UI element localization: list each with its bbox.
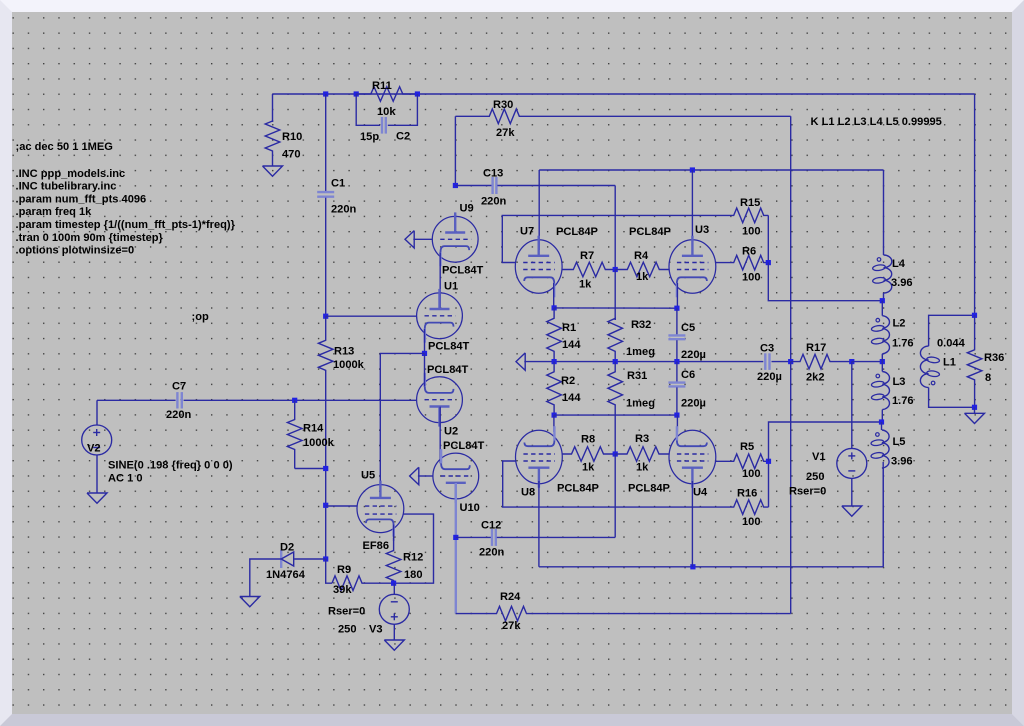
svg-text:EF86: EF86 (363, 540, 390, 552)
svg-text:C12: C12 (481, 519, 501, 531)
svg-text:R6: R6 (742, 245, 756, 257)
svg-text:R11: R11 (372, 80, 392, 92)
svg-text:100: 100 (742, 225, 761, 237)
svg-text:.param num_fft_pts 4096: .param num_fft_pts 4096 (16, 193, 147, 205)
svg-text:250: 250 (806, 471, 825, 483)
svg-text:;ac dec 50 1 1MEG: ;ac dec 50 1 1MEG (16, 141, 113, 153)
svg-text:PCL84T: PCL84T (443, 440, 485, 452)
node R36 bottom (972, 405, 977, 410)
wire top rail B+ y=94 (273, 93, 975, 95)
svg-text:L3: L3 (893, 376, 906, 388)
svg-text:C6: C6 (681, 369, 695, 381)
svg-text:PCL84T: PCL84T (428, 340, 470, 352)
svg-text:R7: R7 (580, 250, 594, 262)
node C6 bottom / U4 cathode (674, 413, 679, 418)
svg-text:AC 1 0: AC 1 0 (108, 472, 143, 484)
svg-text:R13: R13 (334, 345, 354, 357)
wire to U5 plate (380, 353, 424, 492)
svg-text:1meg: 1meg (626, 346, 655, 358)
wire U10 plate down to C12 node (455, 483, 457, 614)
svg-text:R8: R8 (581, 433, 595, 445)
svg-text:1k: 1k (636, 461, 649, 473)
svg-text:R9: R9 (337, 564, 351, 576)
svg-text:1.76: 1.76 (892, 337, 914, 349)
svg-text:Rser=0: Rser=0 (789, 485, 826, 497)
svg-text:R14: R14 (303, 422, 324, 434)
svg-text:R10: R10 (282, 131, 302, 143)
wire R16 right up (768, 461, 770, 507)
svg-text:1k: 1k (582, 461, 595, 473)
input arrow mid rail (516, 353, 525, 370)
svg-text:R1: R1 (562, 322, 576, 334)
node C5/C6 (674, 359, 679, 364)
wire L2 bottom (881, 354, 883, 362)
node C3/R17/feedback (788, 359, 793, 364)
svg-text:V3: V3 (369, 623, 383, 635)
wire U9 grid (413, 238, 432, 240)
inductor L4 (883, 253, 885, 255)
wire R15 right drop (767, 215, 769, 262)
ground V2 (96, 490, 98, 493)
svg-text:PCL84T: PCL84T (442, 264, 484, 276)
capacitor C7 (176, 392, 178, 408)
resistor R7 (562, 262, 616, 277)
node R32/R31 (613, 359, 618, 364)
inductor L1 (920, 346, 928, 387)
tube U3 PCL84P (669, 240, 716, 294)
wire U9 cathode to U1 plate (439, 252, 441, 309)
wire C2 loop (356, 94, 375, 125)
svg-text:.INC ppp_models.inc: .INC ppp_models.inc (16, 168, 126, 180)
svg-text:.tran 0 100m 90m {timestep}: .tran 0 100m 90m {timestep} (16, 232, 164, 244)
svg-text:220µ: 220µ (681, 397, 706, 409)
resistor R2 (547, 362, 562, 416)
wire U5 g2 path (394, 514, 434, 583)
svg-text:15p: 15p (360, 131, 379, 143)
node U4 plate (690, 564, 695, 569)
svg-text:U10: U10 (460, 502, 480, 514)
wire x=325.7 to R9 (326, 559, 332, 583)
capacitor C6 (676, 362, 678, 382)
svg-text:220µ: 220µ (681, 349, 706, 361)
node R7/R4/C13 (613, 267, 618, 272)
node R14 top (292, 398, 297, 403)
svg-text:SINE(0 .198 {freq} 0 0 0): SINE(0 .198 {freq} 0 0 0) (108, 459, 233, 471)
wire cathode rail upper y=308 (554, 307, 677, 309)
svg-text:U8: U8 (521, 486, 535, 498)
wire plate rail y=566.8 (539, 566, 883, 568)
wire C13 down x=615.2 to R7/R4 node (614, 186, 616, 270)
wire U4 plate stub (691, 481, 693, 567)
svg-text:.INC tubelibrary.inc: .INC tubelibrary.inc (16, 181, 117, 193)
wire R6 node down to L4 bottom rail (768, 263, 882, 301)
node U9 plate / C13 / R30 (453, 183, 458, 188)
resistor R36 (967, 315, 982, 407)
svg-text:220n: 220n (481, 195, 507, 207)
svg-text:27k: 27k (496, 127, 515, 139)
node L3 bottom (879, 419, 884, 424)
resistor R14 (287, 400, 302, 468)
svg-text:U4: U4 (693, 486, 708, 498)
svg-text:250: 250 (338, 623, 357, 635)
svg-text:R15: R15 (740, 197, 760, 209)
input arrow U10 grid (410, 467, 419, 484)
wire R10 drop x=272.5 (272, 94, 274, 122)
capacitor C13 (455, 185, 491, 187)
wire R5 node up to y=422 rail (769, 422, 882, 461)
resistor R6 (715, 255, 768, 270)
svg-text:C7: C7 (172, 380, 186, 392)
svg-text:C5: C5 (681, 322, 695, 334)
ground V1 (851, 503, 853, 506)
svg-text:R16: R16 (737, 487, 757, 499)
node C1 top junction (323, 91, 328, 96)
svg-text:U5: U5 (361, 469, 375, 481)
svg-text:1N4764: 1N4764 (266, 569, 306, 581)
node D2 on x=325.7 (323, 556, 328, 561)
svg-text:100: 100 (742, 516, 761, 528)
diode D2 1N4764 (280, 550, 282, 568)
capacitor C3 (764, 353, 766, 370)
resistor R10 (265, 121, 280, 163)
svg-text:D2: D2 (280, 541, 294, 553)
node L4 bottom (880, 298, 885, 303)
inductor L2 (882, 316, 889, 354)
wire U10 grid (418, 475, 433, 477)
tube U10 PCL84T flipped (433, 453, 479, 499)
wire U7 g2 to R15 run (502, 215, 720, 262)
svg-text:1k: 1k (636, 271, 649, 283)
svg-text:PCL84P: PCL84P (628, 482, 671, 494)
svg-text:220n: 220n (166, 409, 192, 421)
node V1 plus (849, 359, 854, 364)
wire U2 cathode up (424, 353, 426, 386)
svg-text:27k: 27k (502, 620, 521, 632)
svg-text:U7: U7 (520, 225, 534, 237)
svg-text:U9: U9 (460, 202, 474, 214)
svg-text:220n: 220n (479, 546, 505, 558)
svg-text:R24: R24 (500, 591, 521, 603)
resistor R5 (715, 454, 768, 469)
svg-text:1meg: 1meg (626, 397, 655, 409)
tube U5 EF86 (357, 485, 404, 533)
wire U1 cathode down (424, 329, 426, 354)
wire U8 plate down (538, 481, 540, 567)
capacitor C12 (456, 536, 491, 538)
svg-text:L5: L5 (893, 436, 906, 448)
svg-text:U2: U2 (444, 425, 458, 437)
svg-text:R30: R30 (493, 99, 513, 111)
svg-text:V2: V2 (87, 442, 101, 454)
wire U4 cathode up (676, 415, 678, 432)
svg-text:8: 8 (985, 372, 991, 384)
wire cathode rail lower y=415.1 (554, 414, 677, 416)
wire C1 to U1-grid junction (325, 225, 327, 316)
node C5 top (674, 306, 679, 311)
voltage source V2 (96, 400, 98, 425)
tube U8 PCL84P flipped (516, 430, 563, 484)
node R11 left (354, 91, 359, 96)
wire R30 left drop (454, 116, 456, 185)
node cathodes U1-U2 to U5 plate (422, 351, 427, 356)
svg-text:R12: R12 (403, 551, 423, 563)
wire L3 top (881, 362, 883, 372)
resistor R17 (791, 354, 852, 369)
svg-text:1k: 1k (579, 278, 592, 290)
resistor R32 (608, 318, 623, 361)
voltage source V3 (393, 583, 395, 594)
node R9/R12/V3/U5g2 (391, 581, 396, 586)
svg-text:C2: C2 (396, 130, 410, 142)
svg-text:PCL84T: PCL84T (427, 364, 469, 376)
svg-text:R32: R32 (631, 319, 651, 331)
wire U7 plate stub (538, 170, 540, 250)
svg-text:100: 100 (742, 468, 761, 480)
wire R30 to x=790.7 (530, 115, 791, 117)
node R2 bottom / U8 cathode (552, 413, 557, 418)
wire L3 bottom (881, 410, 883, 422)
svg-text:L4: L4 (892, 258, 906, 270)
svg-text:470: 470 (282, 148, 301, 160)
wire R17 to L2/L3 node (852, 361, 883, 363)
svg-text:V1: V1 (812, 451, 826, 463)
wire U3 plate stub (691, 170, 693, 250)
inductor L3 (882, 372, 889, 410)
node U10 plate / C12 (453, 535, 458, 540)
wire D2 left to ground (250, 559, 281, 594)
wire x=325.7 down through crossings (325, 400, 327, 559)
svg-text:.param timestep {1/((num_fft_p: .param timestep {1/((num_fft_pts-1)*freq… (16, 219, 236, 231)
svg-text:39k: 39k (333, 584, 352, 596)
svg-text:C13: C13 (483, 167, 503, 179)
svg-text:R36: R36 (984, 352, 1004, 364)
inductor L5 (882, 430, 889, 468)
svg-text:144: 144 (562, 392, 581, 404)
wire U3 cathode down (676, 283, 678, 308)
wire L5 top (881, 422, 883, 430)
svg-text:;op: ;op (192, 311, 209, 323)
node R5/R16 (766, 459, 771, 464)
svg-text:0.044: 0.044 (937, 337, 966, 349)
svg-text:1.76: 1.76 (892, 395, 914, 407)
ground V3 (393, 638, 395, 640)
tube U7 PCL84P (515, 240, 562, 294)
wire L5 to plate rail (882, 468, 884, 567)
resistor R12 (386, 538, 401, 583)
wire U7 plate rail y=170 (539, 169, 883, 171)
resistor R15 (720, 208, 768, 223)
wire V2 to C7 to U2 grid y=400.3 (97, 399, 176, 401)
wire L4 drop (883, 170, 885, 253)
resistor R3 (615, 447, 669, 462)
svg-text:180: 180 (404, 569, 423, 581)
svg-text:10k: 10k (377, 106, 396, 118)
svg-text:144: 144 (562, 339, 581, 351)
wire L5 bottom drop (882, 462, 884, 567)
svg-text:U1: U1 (444, 280, 458, 292)
wire U5 grid (326, 505, 358, 507)
svg-text:R2: R2 (561, 375, 575, 387)
tube U2 PCL84T flipped (417, 377, 463, 423)
node U1 grid / C1 / R13 (323, 314, 328, 319)
wire top rail right drop x=973.8 (974, 94, 976, 315)
wire feedback drop x=790.7 (790, 116, 792, 361)
wire U5 cathode to R12 (393, 525, 395, 541)
capacitor C1 (325, 162, 327, 191)
wire feedback x=790.7 lower (790, 362, 792, 614)
input arrow U9 grid (405, 231, 414, 248)
node U3 plate on rail (690, 167, 695, 172)
wire L2 top (881, 301, 883, 316)
svg-text:2k2: 2k2 (806, 371, 825, 383)
node R15/R6 (766, 260, 771, 265)
wire R14 bottom stub (295, 468, 326, 470)
svg-text:.options plotwinsize=0: .options plotwinsize=0 (16, 245, 135, 257)
wire R24 left (456, 613, 480, 615)
tube U4 PCL84P flipped (669, 430, 716, 484)
svg-text:Rser=0: Rser=0 (328, 605, 365, 617)
svg-text:PCL84P: PCL84P (556, 226, 599, 238)
svg-text:C3: C3 (760, 342, 774, 354)
svg-text:100: 100 (742, 271, 761, 283)
resistor R1 (547, 308, 562, 362)
node R8/R3/C12/R31 (613, 451, 618, 456)
wire D2 right (294, 558, 326, 560)
wire C1 feed x=325.7 (325, 94, 327, 162)
capacitor C2 (381, 117, 383, 134)
wire U1 grid (326, 315, 417, 317)
svg-text:R31: R31 (627, 370, 647, 382)
ground R10 (272, 163, 274, 166)
svg-text:R17: R17 (806, 342, 826, 354)
node R14 bottom on x=325.7 (323, 466, 328, 471)
wire mid rail (524, 361, 763, 363)
svg-text:.param freq 1k: .param freq 1k (16, 206, 93, 218)
ground D2 (249, 594, 251, 597)
resistor R8 (562, 447, 616, 462)
svg-text:3.96: 3.96 (891, 455, 913, 467)
node R1 top (552, 305, 557, 310)
ground R36 (974, 407, 976, 413)
svg-text:220µ: 220µ (757, 371, 782, 383)
svg-text:C1: C1 (331, 177, 345, 189)
svg-text:L1: L1 (943, 356, 956, 368)
wire C12 drop x=615.2 (614, 454, 616, 537)
svg-text:220n: 220n (331, 203, 357, 215)
wire L1 box bottom (929, 388, 975, 408)
node U5 grid tap (323, 503, 328, 508)
wire U7 cathode down (553, 283, 555, 308)
wire L1 box top (929, 315, 975, 346)
tube U9 PCL84T (432, 216, 478, 262)
resistor R30 (455, 109, 530, 124)
resistor R16 (720, 500, 769, 515)
svg-text:PCL84P: PCL84P (629, 226, 672, 238)
resistor R31 (608, 362, 623, 416)
svg-text:L2: L2 (893, 317, 906, 329)
node R1/R2 (552, 359, 557, 364)
svg-text:K L1 L2 L3 L4 L5 0.99995: K L1 L2 L3 L4 L5 0.99995 (811, 116, 942, 128)
resistor R24 (480, 606, 791, 621)
svg-text:1000k: 1000k (303, 437, 335, 449)
node feedback to R36 top (972, 313, 977, 318)
wire U8 g2 run to R16 (503, 461, 720, 507)
resistor R13 (318, 316, 333, 400)
resistor R11 (356, 87, 417, 102)
svg-text:1000k: 1000k (333, 359, 365, 371)
wire L4 bottom (883, 293, 885, 301)
wire R32/R31 line x=615.2 (614, 270, 616, 321)
svg-text:R4: R4 (634, 250, 649, 262)
wire U8 cathode up (553, 415, 555, 432)
tube U1 PCL84T (417, 293, 463, 339)
voltage source V1 (851, 362, 853, 449)
svg-text:PCL84P: PCL84P (557, 482, 600, 494)
wire U2 plate to U10 cathode (439, 407, 441, 464)
resistor R4 (615, 262, 669, 277)
resistor R9 (332, 576, 394, 591)
wire R31 line down to R8/R3 (614, 415, 616, 454)
svg-text:3.96: 3.96 (891, 277, 913, 289)
svg-text:U3: U3 (695, 224, 709, 236)
svg-text:R3: R3 (635, 433, 649, 445)
capacitor C5 (676, 308, 678, 334)
node R11 right (415, 91, 420, 96)
svg-text:R5: R5 (740, 441, 754, 453)
node L2/L3 (880, 359, 885, 364)
